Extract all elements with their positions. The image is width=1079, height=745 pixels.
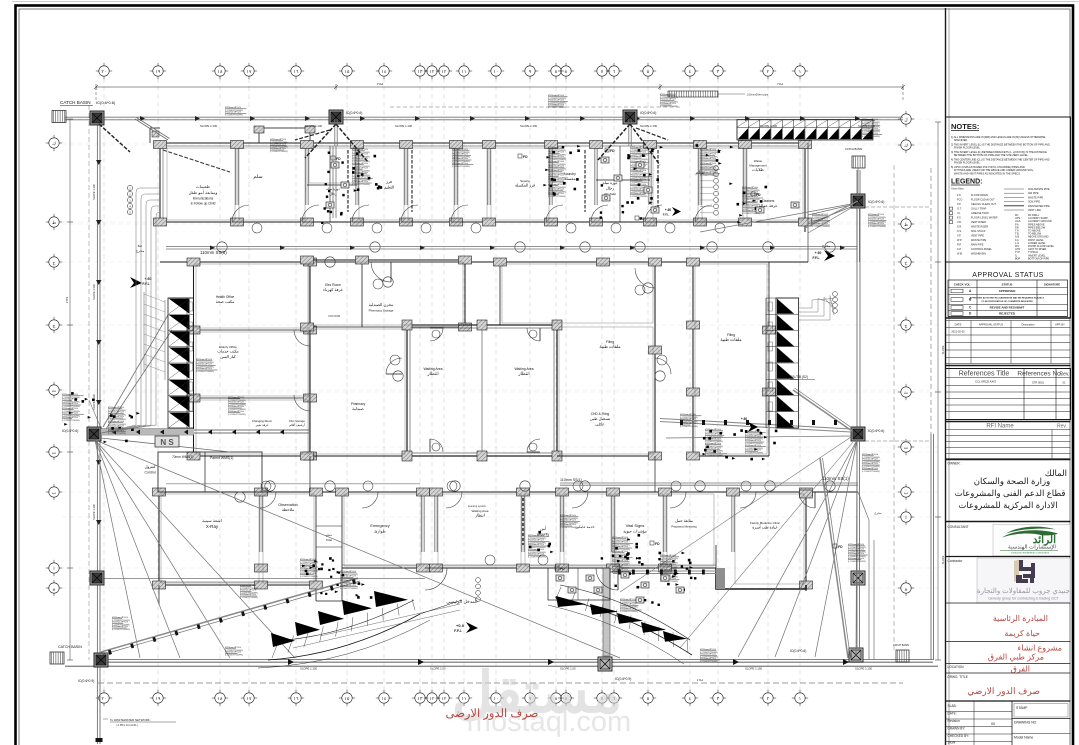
svg-text:Ø110mmUP-UG: Ø110mmUP-UG [352, 149, 368, 151]
catch basin top-left [52, 111, 66, 123]
svg-text:Ø110mmUP-UG: Ø110mmUP-UG [352, 154, 368, 156]
svg-text:Ø110mmUP-UG: Ø110mmUP-UG [560, 515, 576, 517]
svg-text:Ø110mmUP-UG: Ø110mmUP-UG [548, 156, 564, 158]
svg-text:Ø110mmUP-UG: Ø110mmUP-UG [862, 463, 878, 465]
svg-text:IC(0.6*0.9): IC(0.6*0.9) [78, 679, 94, 683]
svg-text:غرفة كهرباء: غرفة كهرباء [323, 287, 343, 292]
svg-text:١٧: ١٧ [247, 696, 252, 701]
svg-text:Ø110mmUP-UG: Ø110mmUP-UG [612, 537, 628, 539]
waiting area block [407, 325, 557, 456]
annotation cluster right catch basin leaders [868, 215, 879, 217]
svg-text:Elderly Office: Elderly Office [219, 345, 237, 349]
legend right column lines [1004, 188, 1024, 190]
svg-text:حمام: حمام [326, 533, 333, 537]
svg-text:(L1.55BOP/T160FFL): (L1.55BOP/T160FFL) [225, 115, 244, 117]
svg-text:SOIL/WASTE PIPE: SOIL/WASTE PIPE [1028, 188, 1050, 191]
svg-text:CONSULTING ENGINEERING CONSULT: CONSULTING ENGINEERING CONSULTANTS [1011, 552, 1050, 555]
svg-text:SLOPE 1:150: SLOPE 1:150 [855, 667, 873, 671]
svg-text:مكتب خدمات: مكتب خدمات [217, 349, 238, 354]
svg-text:SLOPE 1:100: SLOPE 1:100 [92, 504, 96, 520]
svg-text:CATCH BASIN: CATCH BASIN [893, 644, 909, 647]
svg-text:CONTROL PANEL: CONTROL PANEL [971, 248, 992, 251]
svg-text:Ø110mmUP-UG: Ø110mmUP-UG [62, 394, 78, 396]
svg-text:مخزن الصيدلية: مخزن الصيدلية [369, 302, 394, 307]
svg-text:(L1.55BOP/T160FFL): (L1.55BOP/T160FFL) [228, 414, 247, 416]
svg-text:Ø110mmUP-UG: Ø110mmUP-UG [352, 163, 368, 165]
svg-text:Ø110mmUP-UG: Ø110mmUP-UG [745, 440, 761, 442]
svg-text:Waiting Area: Waiting Area [472, 509, 489, 513]
svg-text:WASTE AND VENT PIPES AS INDICA: WASTE AND VENT PIPES AS INDICATED IN THE… [954, 172, 1021, 175]
svg-text:وزارة الصحة والسكان: وزارة الصحة والسكان [974, 476, 1050, 487]
svg-text:Ø110mmUP-UG: Ø110mmUP-UG [270, 144, 286, 146]
svg-text:(-1.85m FromFFL): (-1.85m FromFFL) [116, 723, 138, 727]
svg-text:أرشيف أفلام: أرشيف أفلام [289, 422, 305, 427]
svg-text:٤٧٨٥: ٤٧٨٥ [377, 82, 384, 86]
svg-text:١٢: ١٢ [430, 696, 435, 701]
svg-text:FLOOR CLEAN OUT: FLOOR CLEAN OUT [971, 199, 995, 202]
svg-text:Ø110mmUP-UG: Ø110mmUP-UG [705, 443, 721, 445]
top band partitions [235, 146, 237, 205]
svg-text:IC(0.6*0.6): IC(0.6*0.6) [868, 429, 884, 433]
svg-text:Ø110mmUP-UG: Ø110mmUP-UG [270, 139, 286, 141]
annotation cluster bottom-left corner [112, 618, 122, 620]
svg-text:100mmΦvent pipe: 100mmΦvent pipe [747, 93, 769, 97]
svg-text:+0.0: +0.0 [456, 623, 465, 628]
svg-text:Ø110mmUP-UG: Ø110mmUP-UG [228, 406, 244, 408]
svg-text:Ø110mmUP-UG: Ø110mmUP-UG [660, 94, 676, 96]
svg-text:FINISH FLOOR LEVEL.: FINISH FLOOR LEVEL. [954, 162, 981, 165]
svg-text:Ø110mmUP-UG: Ø110mmUP-UG [352, 158, 368, 160]
svg-text:SOIL PIPE: SOIL PIPE [1028, 201, 1040, 204]
catch basin top-right [852, 156, 865, 168]
svg-text:SLOPE 1:100: SLOPE 1:100 [92, 284, 96, 300]
right pipe fan [856, 440, 857, 657]
svg-text:Ø110mmUP-UG: Ø110mmUP-UG [225, 647, 241, 649]
svg-text:Ø110mmUP-UG: Ø110mmUP-UG [848, 553, 864, 555]
svg-text:Ø110mmUP-UG: Ø110mmUP-UG [868, 219, 884, 221]
svg-text:S.R.: S.R. [957, 226, 962, 229]
svg-text:خدمة عاملين: خدمة عاملين [575, 524, 595, 529]
svg-text:CHECK VOL: CHECK VOL [954, 283, 971, 287]
svg-text:ملاحظة: ملاحظة [282, 507, 294, 512]
svg-text:Ø110mmUP-UG: Ø110mmUP-UG [848, 544, 864, 546]
svg-text:فرز المكسلة: فرز المكسلة [515, 183, 535, 188]
svg-text:(L1.55BOP/T160FFL): (L1.55BOP/T160FFL) [196, 371, 215, 373]
svg-text:Emergency: Emergency [370, 524, 389, 528]
svg-text:ك: ك [52, 141, 56, 146]
riser tag column right top band [714, 166, 719, 171]
svg-text:(L1.55BOP/T160FFL): (L1.55BOP/T160FFL) [705, 455, 724, 457]
svg-text:Ø110mmUP-UG: Ø110mmUP-UG [340, 585, 356, 587]
svg-text:١٠: ١٠ [494, 69, 499, 74]
svg-text:Ø110mmUP-UG: Ø110mmUP-UG [340, 571, 356, 573]
svg-text:مخرج: مخرج [136, 249, 145, 253]
main top drain line [65, 116, 903, 118]
svg-text:(L1.55BOP/T160FFL): (L1.55BOP/T160FFL) [240, 597, 259, 599]
catch basin bottom-left [50, 652, 64, 664]
svg-text:Ø110mmUP-UG: Ø110mmUP-UG [812, 219, 828, 221]
x-ray inner wall [204, 452, 206, 492]
grid bubbles top row [99, 66, 109, 76]
svg-text:المبادرة الرئاسية: المبادرة الرئاسية [993, 614, 1048, 623]
svg-text:١٩: ١٩ [156, 696, 161, 701]
svg-text:١١: ١١ [462, 69, 467, 74]
annotation cluster bottom along stair pipe [240, 586, 251, 588]
svg-text:CONSULTANT: CONSULTANT [948, 525, 969, 529]
svg-text:Ø110mmUP-UG: Ø110mmUP-UG [548, 193, 564, 195]
annotation cluster top center toilets [548, 96, 567, 98]
svg-text:Ø110mmUP-UG: Ø110mmUP-UG [528, 540, 544, 542]
svg-text:(L1.55BOP/T160FFL): (L1.55BOP/T160FFL) [225, 655, 244, 657]
svg-text:Ø110mmUP-UG: Ø110mmUP-UG [560, 524, 576, 526]
faint top page edge [12, 1, 1079, 3]
watermark mostaql [452, 661, 631, 738]
svg-text:١٥: ١٥ [345, 696, 350, 701]
svg-text:(L1.55BOP/T160FFL): (L1.55BOP/T160FFL) [452, 166, 471, 168]
svg-text:CHECKED BY:: CHECKED BY: [948, 734, 970, 738]
gray pipe along top-right terrace [805, 201, 858, 228]
svg-text:(L1.55BOP/T160FFL): (L1.55BOP/T160FFL) [270, 151, 289, 153]
riser tag column left + pipe bundle to IC [127, 185, 132, 190]
svg-text:VCD DSM: VCD DSM [328, 314, 340, 318]
svg-text:Ø110mmUP-UG: Ø110mmUP-UG [680, 414, 696, 416]
svg-text:F.F.L: F.F.L [454, 629, 463, 633]
svg-text:Ø110mmUP-UG: Ø110mmUP-UG [452, 163, 468, 165]
fixtures bottom toilets [556, 575, 564, 581]
bottom band partitions [259, 492, 261, 552]
svg-text:CCL ARCD AXIS: CCL ARCD AXIS [975, 380, 996, 384]
svg-text:Ø110mmUP-UG: Ø110mmUP-UG [630, 170, 646, 172]
svg-text:Ø110mmUP-UG: Ø110mmUP-UG [452, 154, 468, 156]
right side vertical pipes bottom [868, 520, 870, 659]
svg-text:Vital Signs: Vital Signs [626, 523, 645, 528]
svg-text:Waste: Waste [754, 159, 763, 163]
svg-text:(L1.55BOP/T160FFL): (L1.55BOP/T160FFL) [862, 136, 881, 138]
svg-text:Ø110mmUP-UG: Ø110mmUP-UG [62, 408, 78, 410]
svg-text:APPROVED AS NOTED RE-SUBMISSIO: APPROVED AS NOTED RE-SUBMISSION MAY BE R… [970, 297, 1045, 300]
fittings along left diagonal collector [108, 650, 112, 655]
svg-text:Green Abbv.: Green Abbv. [951, 188, 964, 191]
svg-text:RFI Name: RFI Name [986, 424, 1014, 430]
svg-text:Ø110mmUP-UG: Ø110mmUP-UG [848, 558, 864, 560]
svg-text:Ø110mmUP-UG: Ø110mmUP-UG [352, 177, 368, 179]
left wing doors [294, 330, 310, 346]
svg-text:Ø110mmUP-UG: Ø110mmUP-UG [548, 152, 564, 154]
svg-text:SLOPE 1:100: SLOPE 1:100 [520, 124, 538, 128]
svg-text:APPROVAL STATUS: APPROVAL STATUS [979, 323, 1004, 327]
svg-text:١٢: ١٢ [430, 69, 435, 74]
svg-text:BETWEEN THE BOTTOM OF PIPE AND: BETWEEN THE BOTTOM OF PIPE AND THE SITE … [954, 154, 1029, 157]
svg-text:Ø110mmUP-UG: Ø110mmUP-UG [745, 436, 761, 438]
svg-text:OWNER :: OWNER : [948, 462, 962, 466]
svg-text:Ø110mmUP-UG: Ø110mmUP-UG [848, 549, 864, 551]
svg-text:Ø110mmUP-UG: Ø110mmUP-UG [62, 403, 78, 405]
svg-text:SIGN: SIGN [948, 741, 956, 745]
svg-text:REJECTED: REJECTED [999, 312, 1016, 316]
svg-text:Bac: Bac [138, 244, 143, 248]
svg-text:Family Medicine Clinic: Family Medicine Clinic [750, 521, 780, 525]
svg-text:انتظار: انتظار [474, 513, 484, 518]
svg-text:Ø110mmUP-UG: Ø110mmUP-UG [560, 520, 576, 522]
svg-text:V.R.: V.R. [957, 221, 962, 224]
right thick diagonal pipe 110mm [820, 458, 848, 658]
svg-text:WASTE RISER: WASTE RISER [971, 226, 988, 229]
left horizontal feeder to IC [101, 429, 194, 435]
svg-text:F.F.L: F.F.L [813, 256, 820, 260]
stair bay protrusion above top wall [259, 128, 310, 143]
svg-text:FD: FD [655, 542, 660, 546]
riser tag column right stair [833, 292, 838, 297]
svg-text:Ø110mmUP-UG: Ø110mmUP-UG [630, 147, 646, 149]
entrance doors [425, 568, 447, 590]
bottom toilet strip [315, 492, 317, 601]
riser drop pipes from main line [334, 119, 336, 146]
svg-text:(L1.55BOP/T160FFL): (L1.55BOP/T160FFL) [108, 433, 127, 435]
svg-text:Ø110mmUP-UG: Ø110mmUP-UG [548, 188, 564, 190]
svg-text:F.S.: F.S. [957, 194, 962, 197]
references table [946, 369, 1071, 420]
svg-text:جنيدي جروب للمقاولات والتجارة: جنيدي جروب للمقاولات والتجارة [977, 587, 1070, 595]
svg-text:IC(0.6*0.6): IC(0.6*0.6) [640, 111, 656, 115]
svg-text:Ø110mmUP-UG: Ø110mmUP-UG [812, 223, 828, 225]
catch basin bottom-right [896, 650, 909, 662]
svg-text:صرف الدور الارضي: صرف الدور الارضي [967, 686, 1040, 697]
entrance side walls [158, 585, 160, 605]
svg-text:DATE:: DATE: [948, 712, 957, 716]
svg-text:110mm SS(1): 110mm SS(1) [560, 478, 582, 482]
svg-text:C.P.: C.P. [957, 248, 962, 251]
svg-text:CATCH BASIN: CATCH BASIN [60, 100, 91, 105]
approval date table [946, 317, 1071, 319]
svg-text:Ø110mmUP-UG: Ø110mmUP-UG [700, 649, 716, 651]
svg-text:٢٠: ٢٠ [102, 696, 107, 701]
stair S3 right vertical [776, 298, 799, 428]
dark soil pipe runs from IC1 [305, 124, 336, 158]
svg-text:Ø110mmUP-UG: Ø110mmUP-UG [660, 99, 676, 101]
svg-text:SLOPE 1:100: SLOPE 1:100 [200, 124, 218, 128]
svg-text:CO: CO [957, 203, 961, 206]
right IC pipe fan into building [808, 205, 851, 215]
riser tag column bottom [476, 578, 481, 583]
svg-text:ت: ت [52, 450, 57, 455]
svg-text:Ø110mmUP-UG: Ø110mmUP-UG [660, 569, 676, 571]
svg-text:Parent WMS(1): Parent WMS(1) [210, 456, 233, 460]
svg-text:Ø110mmUP-UG: Ø110mmUP-UG [862, 133, 878, 135]
svg-text:FD: FD [640, 217, 645, 221]
svg-text:IC(0.6*0.6): IC(0.6*0.6) [96, 100, 116, 105]
svg-text:ت: ت [904, 445, 909, 450]
svg-text:TO INCORPORATION OF COMMENTS I: TO INCORPORATION OF COMMENTS INDICATED [981, 300, 1033, 303]
svg-text:صرف الدور الارضى: صرف الدور الارضى [446, 707, 539, 720]
svg-text:W.P.: W.P. [957, 239, 962, 242]
svg-text:Ø110mmUP-UG: Ø110mmUP-UG [548, 100, 564, 102]
right side vertical collector pipe [856, 170, 858, 430]
svg-text:رجال: رجال [606, 185, 614, 190]
svg-text:+.60: +.60 [741, 417, 748, 421]
svg-text:مخرج: مخرج [822, 244, 830, 248]
svg-text:SOIL STACK: SOIL STACK [971, 230, 986, 233]
svg-text:F.F.L: F.F.L [663, 213, 670, 217]
inspection chambers [90, 111, 104, 125]
svg-text:Ø110mmUP-UG: Ø110mmUP-UG [612, 546, 628, 548]
svg-text:١٩٨٤: ١٩٨٤ [777, 82, 784, 86]
svg-text:١٣: ١٣ [418, 69, 423, 74]
left pipe fan to bottom drain [95, 440, 140, 658]
svg-text:DATE: DATE [955, 323, 962, 327]
right vertical drain extension [856, 441, 858, 585]
svg-text:Ø110mmUP-UG: Ø110mmUP-UG [228, 397, 244, 399]
svg-text:Ø110mmUP-UG: Ø110mmUP-UG [225, 107, 241, 109]
svg-text:Description: Description [1022, 323, 1036, 327]
svg-text:Ø110mmUP-UG: Ø110mmUP-UG [700, 654, 716, 656]
svg-text:+.60: +.60 [144, 277, 151, 281]
svg-text:Ø110mmUP-UG: Ø110mmUP-UG [620, 608, 636, 610]
stair S4 guide lines [293, 610, 460, 648]
svg-text:FD: FD [560, 567, 565, 571]
svg-text:Ø110mmUP-UG: Ø110mmUP-UG [862, 124, 878, 126]
svg-text:١٨: ١٨ [218, 69, 223, 74]
svg-text:Ø110mmUP-UG: Ø110mmUP-UG [548, 95, 564, 97]
svg-text:70mm WMS(1): 70mm WMS(1) [172, 455, 193, 459]
svg-text:SIGNATURE: SIGNATURE [1044, 283, 1060, 287]
svg-text:Ø110mmUP-UG: Ø110mmUP-UG [868, 214, 884, 216]
svg-text:CATCH BASIN: CATCH BASIN [845, 147, 862, 151]
svg-text:ث: ث [52, 388, 57, 393]
svg-text:Ø110mmUP-UG: Ø110mmUP-UG [528, 535, 544, 537]
svg-text:X-Ray: X-Ray [206, 524, 219, 529]
top dimension line [96, 86, 903, 88]
svg-text:(L1.55BOP/T160FFL): (L1.55BOP/T160FFL) [548, 196, 567, 198]
annotation cluster top mid-left toilets [352, 150, 365, 152]
svg-text:SLOPE 1:100: SLOPE 1:100 [92, 394, 96, 410]
svg-text:(L1.55BOP/T160FFL): (L1.55BOP/T160FFL) [680, 426, 699, 428]
corridor drain pipe upper [166, 246, 857, 248]
svg-text:Ø110mmUP-UG: Ø110mmUP-UG [630, 179, 646, 181]
corridor south wall [160, 261, 808, 263]
svg-text:Ø110mmUP-UG: Ø110mmUP-UG [660, 555, 676, 557]
annotation cluster left middle [62, 395, 84, 397]
svg-text:كنترول: كنترول [145, 464, 156, 469]
svg-text:Ø110mmUP-UG: Ø110mmUP-UG [240, 590, 256, 592]
svg-text:STATUS: STATUS [1002, 283, 1013, 287]
toilet cluster pipes top-left [332, 146, 334, 218]
top band east wall double [807, 143, 809, 262]
svg-text:Ø110mmUP-UG: Ø110mmUP-UG [196, 359, 212, 361]
left vertical dimension line [88, 105, 90, 660]
svg-text:١٨: ١٨ [218, 696, 223, 701]
svg-text:٤٦٨٤: ٤٦٨٤ [697, 678, 704, 682]
svg-text:FD: FD [756, 193, 761, 197]
building top band outer walls [160, 142, 805, 144]
svg-text:Ø110mmUP-UG: Ø110mmUP-UG [340, 580, 356, 582]
svg-text:Ø110mmUP-UG: Ø110mmUP-UG [112, 622, 128, 624]
svg-text:LOCATION: LOCATION [948, 665, 965, 669]
svg-text:(L1.55BOP/T160FFL): (L1.55BOP/T160FFL) [868, 226, 887, 228]
title block frame [945, 8, 947, 745]
svg-text:متابعة حمل: متابعة حمل [675, 518, 693, 523]
dark soil pipe runs from IC2 [598, 124, 630, 160]
svg-text:١٦: ١٦ [294, 69, 299, 74]
svg-text:Ø110mmUP-UG: Ø110mmUP-UG [112, 617, 128, 619]
svg-text:References Title: References Title [959, 371, 1010, 378]
svg-text:I.C.: I.C. [957, 212, 961, 215]
svg-text:S.S.: S.S. [957, 230, 962, 233]
svg-text:Ø110mmUP-UG: Ø110mmUP-UG [196, 364, 212, 366]
svg-text:Rev.: Rev. [1060, 372, 1070, 378]
svg-text:مخرج: مخرج [874, 511, 882, 515]
svg-text:REVISE AND RESUBMIT: REVISE AND RESUBMIT [990, 306, 1025, 310]
stair S5 right curved [555, 597, 692, 655]
svg-text:Ø110mmUP-UG: Ø110mmUP-UG [112, 626, 128, 628]
svg-text:FD: FD [838, 545, 843, 549]
svg-text:(L1.55BOP/T160FFL): (L1.55BOP/T160FFL) [340, 588, 359, 590]
match line marker left [155, 436, 179, 447]
svg-text:١٣: ١٣ [418, 696, 423, 701]
svg-text:Ø110mmUP-UG: Ø110mmUP-UG [812, 214, 828, 216]
corridor drain pipe lower [560, 482, 858, 484]
svg-text:Ø110mmUP-UG: Ø110mmUP-UG [548, 161, 564, 163]
svg-text:110mm SS(6): 110mm SS(6) [200, 250, 227, 255]
svg-text:طلايات: طلايات [752, 167, 764, 172]
svg-text:Ø110mmUP-UG: Ø110mmUP-UG [745, 445, 761, 447]
grid bubbles left column [49, 138, 59, 148]
svg-text:Ø110mmUP-UG: Ø110mmUP-UG [300, 568, 316, 570]
svg-text:Ø110mmUP-UG: Ø110mmUP-UG [62, 417, 78, 419]
svg-text:Ø110mmUP-UG: Ø110mmUP-UG [868, 223, 884, 225]
svg-text:NOTES:: NOTES: [951, 122, 979, 131]
svg-text:(L1.55BOP/T160FFL): (L1.55BOP/T160FFL) [742, 213, 761, 215]
svg-text:Ø110mmUP-UG: Ø110mmUP-UG [548, 179, 564, 181]
mid dashed dim above drain [390, 106, 680, 108]
left vertical drain [96, 119, 98, 655]
right property dashed line [893, 165, 895, 650]
svg-text:(L1.55BOP/T160FFL): (L1.55BOP/T160FFL) [62, 420, 81, 422]
svg-text:(L1.55BOP/T160FFL): (L1.55BOP/T160FFL) [700, 661, 719, 663]
svg-text:مؤشرات حيوية: مؤشرات حيوية [623, 529, 647, 534]
top band columns [154, 141, 167, 149]
svg-text:مشروع انشاء: مشروع انشاء [1018, 644, 1062, 653]
svg-text:SLOPE 1:150: SLOPE 1:150 [300, 667, 318, 671]
svg-text:CEILING CLEAN OUT: CEILING CLEAN OUT [971, 203, 996, 206]
svg-text:G.T.: G.T. [957, 208, 962, 211]
svg-text:ا: ا [53, 566, 54, 571]
svg-text:١٥: ١٥ [345, 69, 350, 74]
dark pipe runs top-left IC0 [99, 124, 130, 152]
svg-text:٢٠: ٢٠ [102, 69, 107, 74]
svg-text:SLOPE 1:100: SLOPE 1:100 [92, 184, 96, 200]
svg-text:Rev.: Rev. [1057, 424, 1067, 430]
svg-text:Ø110mmUP-UG: Ø110mmUP-UG [745, 449, 761, 451]
svg-text:١٢: ١٢ [442, 69, 447, 74]
svg-text:ملفات طبية: ملفات طبية [720, 337, 741, 342]
queuing barrier dashed [522, 498, 524, 545]
svg-text:IC(0.6*0.6): IC(0.6*0.6) [62, 429, 78, 433]
svg-text:Ø110mmUP-UG: Ø110mmUP-UG [705, 438, 721, 440]
svg-text:STAMP: STAMP [1016, 706, 1028, 710]
svg-text:(L1.55BOP/T160FFL): (L1.55BOP/T160FFL) [352, 184, 371, 186]
stair-to-IC thick diagonal [793, 390, 852, 431]
svg-text:IC(0.6*0.6): IC(0.6*0.6) [346, 111, 362, 115]
annotation cluster bottom center [528, 536, 549, 538]
svg-text:طعيمات: طعيمات [196, 184, 210, 189]
svg-text:& Follow up Child: & Follow up Child [191, 201, 216, 205]
svg-text:الإستشارات الهندسية: الإستشارات الهندسية [1008, 544, 1056, 551]
svg-text:غرفة تغيير: غرفة تغيير [255, 423, 269, 427]
svg-text:SLOPE 1:50: SLOPE 1:50 [430, 667, 446, 671]
pipe below bottom-left IC to sewer [96, 667, 98, 744]
svg-text:Ø110mmUP-UG: Ø110mmUP-UG [528, 553, 544, 555]
svg-text:F.S.: F.S. [957, 217, 962, 220]
